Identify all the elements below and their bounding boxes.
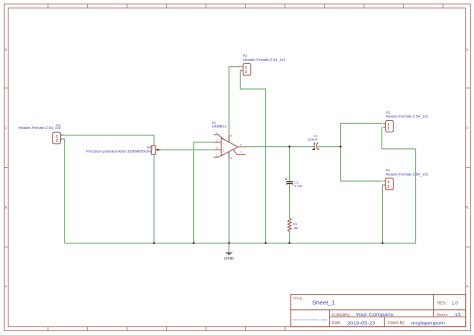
wire P1 pin1 to RR1 top <box>60 135 154 146</box>
junction node dot p2 pin2 net <box>265 242 267 244</box>
svg-text:Drawn By:: Drawn By: <box>388 320 405 325</box>
wire C1 to node B <box>317 146 340 148</box>
svg-text:Header-Female-2.54_1x2: Header-Female-2.54_1x2 <box>386 172 429 176</box>
resistor R1 <box>288 218 291 232</box>
frame zone ticks left <box>4 88 8 247</box>
junction node dot p4 pin2 net <box>381 242 383 244</box>
wire C2 to R1 <box>289 184 291 218</box>
wire RR1 wiper to U1 pin3 <box>160 149 215 151</box>
svg-text:Sheet_1: Sheet_1 <box>312 301 335 307</box>
frame zone letter labels left <box>5 48 469 289</box>
title block outline <box>291 294 466 326</box>
svg-text:Header-Female-2.54_1x2: Header-Female-2.54_1x2 <box>386 115 429 119</box>
junction node B output <box>340 146 342 148</box>
ground GND <box>224 243 234 260</box>
U1 pin numbers <box>216 131 242 158</box>
wire U1 pin2 to ground rail <box>194 142 215 243</box>
svg-text:easyeda.com/editor-schematic_o: easyeda.com/editor-schematic_onglaja <box>292 318 327 321</box>
wire U1 pin4 to ground rail <box>228 153 230 244</box>
wire P3 pin2 to right rail <box>382 127 416 149</box>
wire node B to P3 pin1 <box>341 123 382 146</box>
svg-text:Precision potentiometer 3296W/: Precision potentiometer 3296W/50ohm <box>86 149 152 153</box>
svg-text:Header-Female-2.54_1x2: Header-Female-2.54_1x2 <box>18 126 61 130</box>
svg-text:2: 2 <box>245 70 247 74</box>
capacitor C2 <box>285 178 293 184</box>
wire ground rail <box>65 149 416 243</box>
svg-text:Company:: Company: <box>332 312 351 317</box>
svg-text:Your Company: Your Company <box>356 312 395 318</box>
frame zone ticks top <box>48 4 443 8</box>
header P2 <box>241 64 251 76</box>
frame zone ticks bottom <box>48 327 285 331</box>
junction node A output <box>288 146 290 148</box>
svg-text:2: 2 <box>388 184 390 188</box>
wire P1 pin2 to ground rail <box>60 139 64 243</box>
potentiometer RR1 <box>151 146 160 155</box>
svg-text:10k: 10k <box>293 226 298 230</box>
wire R1 to ground rail <box>289 232 291 243</box>
wire P2 pin2 to ground rail <box>240 70 265 243</box>
svg-text:1/1: 1/1 <box>455 312 462 317</box>
svg-text:1.0: 1.0 <box>452 301 459 306</box>
svg-text:Sheet:: Sheet: <box>436 312 448 317</box>
svg-text:GND: GND <box>224 256 234 260</box>
svg-text:2: 2 <box>388 127 390 131</box>
svg-text:Date:: Date: <box>332 320 342 325</box>
wire P4 pin2 to ground rail <box>381 185 384 243</box>
svg-text:onglajatuporn: onglajatuporn <box>411 320 446 325</box>
svg-text:B: B <box>466 206 468 210</box>
junction node dot pin2 net <box>193 242 195 244</box>
wire node A branch down to C2 <box>289 147 291 182</box>
header P4 <box>383 178 393 190</box>
junction node dot gnd <box>228 242 230 244</box>
wire node B to P4 pin1 <box>341 147 382 182</box>
svg-text:LM386N-1: LM386N-1 <box>212 125 227 129</box>
junction node dot r1 bottom <box>288 242 290 244</box>
op-amp U1 <box>214 135 246 159</box>
svg-text:TITLE:: TITLE: <box>293 296 303 300</box>
frame zone ticks right <box>466 88 471 247</box>
svg-text:REV:: REV: <box>437 300 446 305</box>
wire U1 output to C1 <box>246 146 314 148</box>
svg-text:Header-Female-2.54_1x2: Header-Female-2.54_1x2 <box>243 58 286 62</box>
capacitor C1 <box>313 143 320 151</box>
svg-text:2: 2 <box>56 139 58 143</box>
junction node dot pot bottom <box>153 242 155 244</box>
svg-text:0.1uF: 0.1uF <box>295 184 303 188</box>
header P3 <box>383 120 393 132</box>
header P1 <box>53 132 63 144</box>
wire RR1 bottom to rail <box>153 154 155 243</box>
svg-text:2019-05-23: 2019-05-23 <box>347 320 376 326</box>
svg-text:B: B <box>5 206 7 210</box>
svg-text:1000uF: 1000uF <box>307 137 318 141</box>
wire P2 pin1 to U1 pin6 <box>229 67 240 142</box>
